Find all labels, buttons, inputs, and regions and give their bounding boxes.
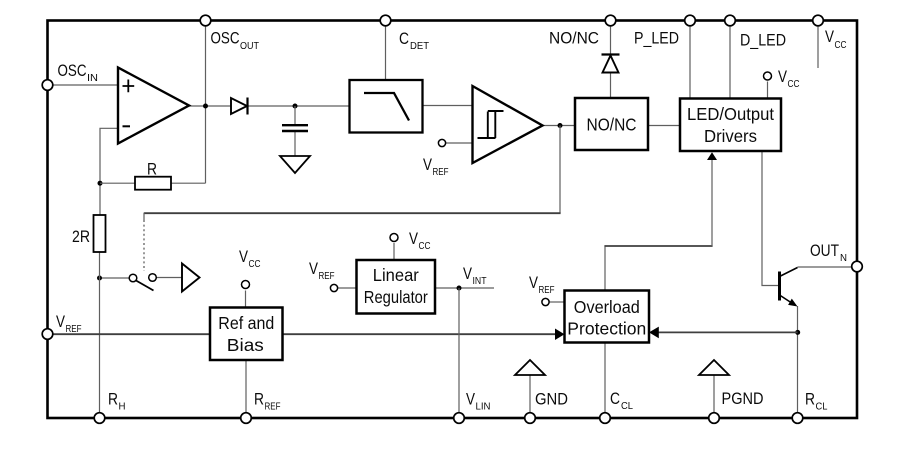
op-amp U1 oscillator (118, 68, 189, 144)
wire capacitor top lead (294, 106, 296, 125)
wire Ref and Bias to R_REF (245, 360, 247, 418)
svg-text:R: R (805, 390, 815, 409)
wire collector to OUT_N (798, 266, 852, 268)
block Ref and Bias (210, 308, 283, 361)
node switch junction (97, 276, 102, 281)
wire V_INT output (435, 287, 494, 289)
svg-text:Linear: Linear (373, 265, 419, 285)
svg-text:LIN: LIN (476, 402, 491, 413)
svg-text:OUT: OUT (240, 41, 259, 52)
wire NO/NC pin to diode (610, 26, 612, 55)
svg-text:NO/NC: NO/NC (549, 29, 599, 48)
wire VREF stub to Overload (550, 301, 565, 303)
svg-text:REF: REF (433, 167, 449, 178)
pin V_CC (813, 15, 847, 51)
switch S1 (129, 274, 156, 291)
node emitter/overload junction (795, 330, 800, 335)
svg-text:R: R (108, 390, 118, 409)
wire diode to NO/NC box (610, 73, 612, 98)
pin GND (525, 390, 568, 424)
node minus/R junction (98, 181, 103, 186)
resistor R (135, 160, 171, 190)
diode D2 (NO/NC pin) (602, 55, 620, 73)
VCC stub pin (Linear Regulator) (390, 229, 431, 252)
diode D1 (231, 98, 248, 115)
wire VREF stub to comparator (446, 142, 473, 144)
svg-text:Drivers: Drivers (704, 126, 757, 146)
wire 2R bottom to R_H (99, 252, 101, 418)
VCC stub pin (LED drivers) (764, 67, 800, 90)
wire Linear Regulator VCC stub (393, 243, 395, 260)
svg-text:V: V (825, 27, 835, 46)
svg-text:V: V (56, 312, 66, 331)
svg-text:CC: CC (249, 259, 261, 270)
svg-text:2R: 2R (72, 227, 90, 246)
svg-text:Protection: Protection (567, 319, 646, 339)
svg-text:Bias: Bias (227, 335, 264, 355)
svg-text:V: V (239, 247, 249, 266)
wire Overload to LED drivers (604, 247, 606, 291)
pin OUT_N (810, 241, 862, 272)
svg-text:INT: INT (473, 276, 487, 287)
node V_INT junction (457, 286, 462, 291)
pin R_REF (241, 390, 281, 424)
wire PGND symbol lead (713, 375, 715, 418)
wire dotted switch control (143, 220, 145, 271)
svg-text:V: V (778, 67, 788, 86)
wire Ref and Bias VCC stub (245, 291, 247, 308)
wire VREF rail left (53, 333, 210, 335)
wire NO/NC box to LED drivers (648, 125, 680, 127)
svg-text:V: V (409, 229, 419, 248)
svg-text:Ref and: Ref and (218, 313, 274, 333)
wire emitter to R_CL (797, 306, 799, 418)
svg-text:Regulator: Regulator (364, 287, 428, 307)
svg-text:GND: GND (535, 390, 568, 409)
VREF stub pin (Overload) (529, 273, 555, 306)
wire D_LED vertical (729, 26, 731, 98)
wire GND symbol lead (529, 375, 531, 418)
wire OSC_OUT vertical (205, 26, 207, 183)
ground GND symbol (515, 360, 545, 375)
wire filter to comparator (423, 105, 473, 107)
svg-text:CC: CC (419, 241, 431, 252)
svg-text:OSC: OSC (211, 29, 240, 48)
svg-text:R: R (147, 160, 157, 179)
svg-text:DET: DET (410, 41, 429, 52)
block LED/Output Drivers (680, 99, 781, 152)
svg-text:CC: CC (788, 79, 800, 90)
node comparator output (558, 123, 563, 128)
svg-text:REF: REF (66, 324, 82, 335)
pin OSC_IN (42, 61, 98, 90)
arrowhead into overload right (649, 327, 659, 339)
pin R_CL (792, 390, 828, 424)
arrowhead into LED drivers bottom (707, 152, 717, 160)
svg-text:C: C (399, 29, 409, 48)
wire VREF rail right (283, 333, 557, 335)
pin D_LED (725, 15, 786, 49)
wire diode to filter (249, 105, 350, 107)
VREF stub pin (Linear Regulator) (309, 259, 338, 292)
wire OSC_IN to op-amp (53, 84, 118, 86)
wire sense to Overload right (657, 331, 798, 333)
wire capacitor bottom lead (294, 132, 296, 157)
wire C_DET vertical (385, 26, 387, 80)
pin P_LED (634, 15, 695, 47)
wire R right lead (171, 182, 206, 184)
wire op-amp inverting input feedback (100, 128, 118, 215)
svg-text:REF: REF (265, 402, 281, 413)
wire switch to buffer (157, 277, 183, 279)
wire 2R to switch (100, 277, 130, 279)
wire VCC pin stub (817, 26, 819, 68)
svg-text:REF: REF (319, 271, 335, 282)
wire op-amp output (189, 105, 231, 107)
node label V_INT (463, 264, 487, 287)
resistor 2R (72, 215, 106, 252)
svg-text:V: V (309, 259, 319, 278)
buffer A1 (182, 264, 200, 292)
svg-text:V: V (463, 264, 473, 283)
wire Overload to C_CL (604, 343, 606, 419)
VREF stub pin (comparator) (423, 139, 449, 178)
ground (capacitor) (280, 156, 310, 173)
svg-text:CL: CL (816, 402, 828, 413)
block Linear Regulator (357, 260, 436, 314)
wire feedback to switch (559, 126, 561, 214)
wire VREF stub to Linear Regulator (338, 287, 357, 289)
svg-text:LED/Output: LED/Output (687, 104, 774, 124)
svg-text:P_LED: P_LED (634, 29, 679, 48)
svg-text:C: C (610, 389, 620, 408)
node op-amp output / OSC_OUT (203, 104, 208, 109)
svg-text:OUT: OUT (810, 241, 839, 260)
comparator U2 schmitt (473, 86, 543, 163)
arrowhead into overload left (555, 329, 565, 341)
svg-text:D_LED: D_LED (740, 31, 786, 50)
VCC stub pin (Ref and Bias) (239, 247, 261, 289)
wire V_INT to V_LIN pin (458, 288, 460, 418)
svg-text:V: V (529, 273, 539, 292)
wire R left lead (100, 182, 135, 184)
node capacitor junction (293, 104, 298, 109)
svg-text:CL: CL (621, 401, 633, 412)
svg-text:N: N (840, 253, 847, 264)
block NO/NC (575, 98, 648, 150)
low-pass filter block (350, 80, 423, 133)
svg-text:H: H (119, 402, 126, 413)
pin OSC_OUT (200, 15, 259, 52)
pin NO/NC (549, 15, 616, 47)
svg-text:IN: IN (87, 73, 98, 84)
svg-text:CC: CC (835, 40, 847, 51)
transistor Q1 (780, 268, 798, 307)
svg-text:R: R (254, 390, 264, 409)
wire P_LED vertical (689, 26, 691, 98)
pin PGND (709, 389, 764, 423)
pin C_CL (600, 389, 634, 423)
svg-text:PGND: PGND (722, 389, 764, 408)
svg-text:Overload: Overload (574, 297, 640, 317)
pin C_DET (380, 15, 429, 52)
pin R_H (94, 390, 125, 424)
IC boundary (48, 21, 858, 419)
pin V_REF (42, 312, 81, 339)
ground PGND symbol (699, 360, 729, 375)
wire comparator output (543, 125, 575, 127)
svg-text:OSC: OSC (58, 61, 87, 80)
svg-text:NO/NC: NO/NC (587, 115, 637, 135)
wire LED drivers to transistor base (762, 151, 778, 286)
svg-text:V: V (466, 390, 476, 409)
svg-text:REF: REF (539, 285, 555, 296)
wire LED drivers VCC stub (767, 82, 769, 99)
pin V_LIN (454, 390, 491, 424)
capacitor C1 (282, 125, 308, 131)
svg-text:V: V (423, 155, 433, 174)
block Overload Protection (565, 291, 650, 343)
